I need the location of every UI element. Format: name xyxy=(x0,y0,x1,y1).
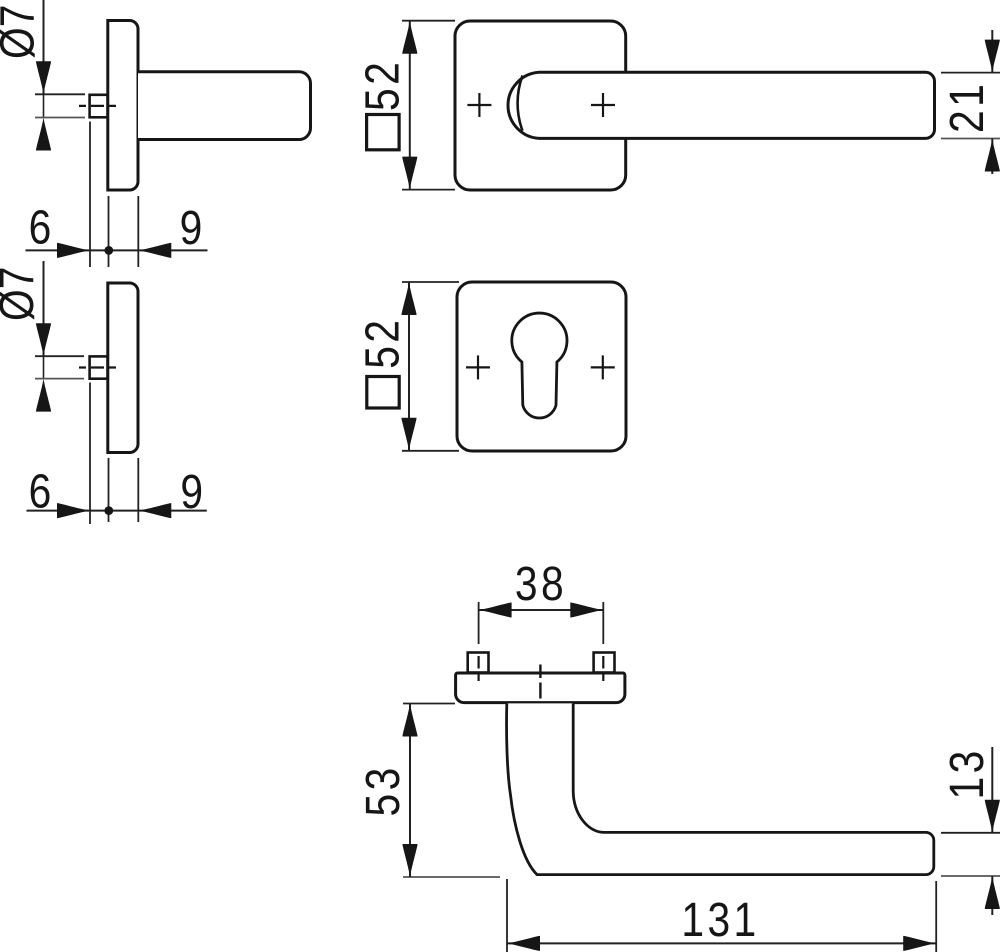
rosette body side profile xyxy=(108,21,138,191)
dim 13: dimension line upper xyxy=(991,747,993,833)
dim 131: extension line right xyxy=(935,881,937,952)
dim Ø7: lower arrow (up) xyxy=(36,379,51,412)
lever neck bar (side) xyxy=(138,72,311,140)
dim square52: extension line bottom xyxy=(402,450,459,452)
screw cross left xyxy=(467,93,491,117)
dim 13: extension line bottom xyxy=(941,875,1000,877)
dim 6/9: dimension line xyxy=(27,510,207,512)
svg-text:9: 9 xyxy=(180,466,203,519)
dim 53: arrow down xyxy=(403,844,418,877)
dim 6/9: extension line screw face xyxy=(89,122,91,268)
dim Ø7: extension line bottom xyxy=(35,378,84,380)
dim 6/9: arrow right xyxy=(57,503,90,518)
dim square symbol xyxy=(367,115,400,150)
dim Ø7: extension line top xyxy=(35,355,84,357)
dim 6/9: dimension line xyxy=(26,249,208,251)
svg-text:9: 9 xyxy=(180,202,203,255)
dim 21: arrow up xyxy=(985,139,1000,172)
left pin centerline xyxy=(478,644,480,681)
svg-text:6: 6 xyxy=(29,201,52,254)
square escutcheon xyxy=(457,282,626,451)
dim 6/9: junction dot xyxy=(104,246,113,255)
screw head xyxy=(90,356,108,378)
svg-text:52: 52 xyxy=(356,59,409,111)
dim 38: dimension line xyxy=(479,609,604,611)
dim 6/9: arrow left xyxy=(138,503,171,518)
lever grip bar xyxy=(508,72,934,138)
dim Ø7: lower arrow (up) xyxy=(36,118,51,151)
dim Ø7: upper arrow (down) xyxy=(36,323,51,356)
dim 131: arrow left xyxy=(507,936,540,951)
svg-text:38: 38 xyxy=(515,558,567,611)
right pin centerline xyxy=(602,644,604,681)
dim 38: extension line right xyxy=(602,602,604,644)
dim 38: arrow right xyxy=(570,603,603,618)
dim 21: dimension line upper xyxy=(991,30,993,73)
dim 53: arrow up xyxy=(403,704,418,737)
dim Ø7: upper arrow (down) xyxy=(36,61,51,94)
svg-text:53: 53 xyxy=(357,764,410,816)
centerline through screw xyxy=(79,105,117,107)
dim square symbol xyxy=(367,377,399,409)
screw cross right xyxy=(591,93,615,117)
dim 13: arrow down xyxy=(985,800,1000,833)
dim 6/9: arrow right xyxy=(57,243,90,258)
dim 6/9: arrow left xyxy=(138,243,171,258)
euro profile cylinder hole xyxy=(512,313,567,418)
plate centerline xyxy=(539,665,541,714)
dim Ø7: dimension line upper segment xyxy=(43,261,45,356)
dim 13: dimension line lower xyxy=(991,876,993,915)
dim 53: extension line bottom xyxy=(403,876,500,878)
left screw pin xyxy=(468,653,489,673)
dim 21: extension line bottom xyxy=(941,138,1000,140)
dim square52: dimension line xyxy=(408,282,410,451)
svg-text:21: 21 xyxy=(941,81,994,133)
dim 6/9: extension line screw face xyxy=(89,383,91,525)
dim Ø7: dimension line between xyxy=(43,94,45,117)
dim Ø7: dimension line between xyxy=(43,356,45,378)
svg-text:6: 6 xyxy=(29,465,52,518)
svg-text:Ø7: Ø7 xyxy=(0,5,44,59)
screw head xyxy=(90,95,108,118)
dim square52: arrow down xyxy=(402,418,417,451)
dim square52: extension line top xyxy=(402,20,455,22)
screw cross right xyxy=(591,355,615,379)
dim 13: arrow up xyxy=(985,876,1000,909)
dim square52: dimension line xyxy=(409,21,411,190)
dim 21: extension line top xyxy=(941,72,1000,74)
dim square52: extension line bottom xyxy=(402,189,455,191)
dim 6/9: extension line rosette back xyxy=(137,196,139,267)
dim square52: arrow down xyxy=(402,157,417,190)
dim 38: extension line left xyxy=(478,602,480,644)
dim Ø7: extension line top xyxy=(35,93,85,95)
dim 13: extension line top xyxy=(941,832,1000,834)
rose plate side xyxy=(456,673,625,703)
dim square52: extension line top xyxy=(402,281,459,283)
handle profile outline xyxy=(507,703,934,874)
dim 131: extension line left xyxy=(506,879,508,952)
screw cross left xyxy=(466,355,490,379)
dim square52: arrow up xyxy=(402,21,417,54)
centerline through screw xyxy=(79,366,117,368)
svg-text:Ø7: Ø7 xyxy=(0,267,44,321)
dim 6/9: extension line rosette front xyxy=(108,458,110,522)
dim 21: arrow down xyxy=(985,40,1000,73)
dim 53: extension line top xyxy=(403,703,455,705)
dim 6/9: extension line rosette front xyxy=(108,196,110,267)
dim 38: arrow left xyxy=(479,603,512,618)
dim square52: arrow up xyxy=(402,282,417,315)
dim 6/9: junction dot xyxy=(104,506,113,515)
svg-text:131: 131 xyxy=(681,894,759,947)
dim 131: arrow right xyxy=(903,936,936,951)
dim 131: dimension line xyxy=(507,942,936,944)
right screw pin xyxy=(594,653,615,673)
dim Ø7: dimension line upper segment xyxy=(43,0,45,94)
dim 21: dimension line lower xyxy=(991,139,993,175)
rosette body side profile xyxy=(108,283,138,453)
neck inner arc xyxy=(518,76,523,131)
svg-text:13: 13 xyxy=(941,747,994,799)
dim Ø7: extension line bottom xyxy=(35,117,85,119)
svg-text:52: 52 xyxy=(356,317,409,369)
dim 6/9: extension line rosette back xyxy=(137,458,139,522)
square rose xyxy=(455,21,626,190)
dim 53: dimension line xyxy=(409,704,411,878)
